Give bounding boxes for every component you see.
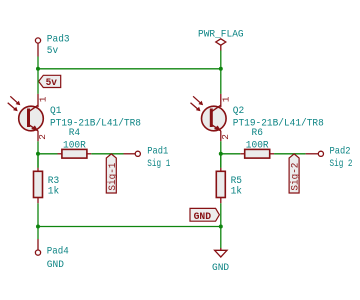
wire junction to Pad4 [37, 227, 39, 240]
svg-text:Pad1: Pad1 [147, 145, 168, 157]
junction right mid [219, 152, 223, 156]
wire Q1 emitter down [37, 141, 39, 168]
svg-text:Pad4: Pad4 [47, 246, 69, 258]
transistor Q1 [8, 94, 44, 141]
wire R6 to Pad2 [274, 153, 306, 155]
wire Q2 emitter down [220, 141, 222, 168]
svg-text:2: 2 [37, 134, 48, 140]
svg-text:Sig-2: Sig-2 [290, 163, 302, 191]
svg-text:Sig 2: Sig 2 [330, 158, 353, 170]
svg-text:1: 1 [38, 96, 49, 102]
connector Pad1 pin circle [135, 151, 140, 156]
wire bottom horizontal gnd rail [38, 226, 221, 228]
svg-text:Q2: Q2 [233, 105, 244, 117]
connector Pad3 pin circle [35, 38, 40, 43]
connector Pad3 pin line [37, 43, 39, 56]
svg-text:GND: GND [212, 262, 229, 274]
svg-text:2: 2 [220, 134, 231, 140]
wire mid-left horizontal to R4 [38, 153, 58, 155]
wire junction to GND symbol [220, 227, 222, 249]
svg-text:1: 1 [220, 96, 231, 102]
junction left 5v [36, 67, 40, 71]
svg-text:100R: 100R [63, 140, 86, 152]
svg-text:1k: 1k [48, 186, 59, 198]
wire top horizontal 5v rail [38, 68, 221, 70]
junction left mid [36, 152, 40, 156]
transistor Q2 [191, 94, 227, 141]
resistor R5 [216, 168, 225, 204]
svg-text:Q1: Q1 [50, 105, 61, 117]
wire Q2 to R5 [220, 154, 222, 168]
connector Pad2 pin line [306, 153, 319, 155]
power flag symbol [216, 39, 226, 51]
global label Sig-1 pennant [106, 154, 119, 193]
connector Pad2 pin circle [318, 151, 323, 156]
global label GND pennant [190, 208, 219, 222]
wire R5 to bottom junction [220, 203, 222, 226]
svg-text:PT19-21B/L41/TR8: PT19-21B/L41/TR8 [50, 117, 141, 129]
junction right bottom [219, 225, 223, 229]
global label Sig-2 pennant [289, 154, 302, 193]
svg-text:5v: 5v [46, 77, 58, 89]
ground symbol [215, 248, 227, 257]
svg-text:Sig-1: Sig-1 [107, 163, 119, 191]
connector Pad1 pin line [124, 153, 136, 155]
svg-text:R4: R4 [69, 127, 80, 139]
svg-text:Pad2: Pad2 [330, 145, 351, 157]
svg-text:100R: 100R [246, 140, 269, 152]
resistor R3 [34, 168, 43, 204]
connector Pad4 pin line [37, 239, 39, 250]
connector Pad4 pin circle [35, 250, 40, 255]
junction left bottom [36, 225, 40, 229]
svg-text:Sig 1: Sig 1 [147, 158, 170, 170]
wire Q1 to R3 [37, 154, 39, 168]
wire mid-right horizontal to R6 [221, 153, 241, 155]
global label 5v pennant [39, 75, 61, 89]
svg-text:GND: GND [194, 211, 212, 223]
svg-text:5v: 5v [47, 45, 58, 57]
junction right 5v [219, 67, 223, 71]
resistor R4 [58, 149, 92, 158]
wire R4 to Pad1 [91, 153, 123, 155]
wire R3 to bottom junction [37, 203, 39, 226]
resistor R6 [240, 149, 274, 158]
wire Pad3 to top junction [37, 57, 39, 69]
svg-text:1k: 1k [231, 186, 242, 198]
wire left rail to Q1 collector [37, 69, 39, 94]
svg-text:Pad3: Pad3 [47, 33, 70, 45]
svg-text:PT19-21B/L41/TR8: PT19-21B/L41/TR8 [233, 117, 324, 129]
svg-text:R6: R6 [252, 127, 263, 139]
svg-text:GND: GND [47, 259, 64, 271]
wire PWR_FLAG to junction [220, 51, 222, 69]
wire right rail to Q2 collector [220, 69, 222, 94]
